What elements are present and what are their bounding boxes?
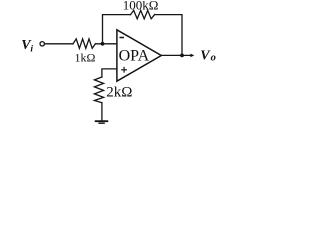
svg-text:100kΩ: 100kΩ bbox=[123, 0, 159, 12]
svg-text:OPA: OPA bbox=[119, 48, 150, 65]
svg-text:1kΩ: 1kΩ bbox=[75, 51, 96, 65]
svg-text:2kΩ: 2kΩ bbox=[106, 84, 132, 100]
